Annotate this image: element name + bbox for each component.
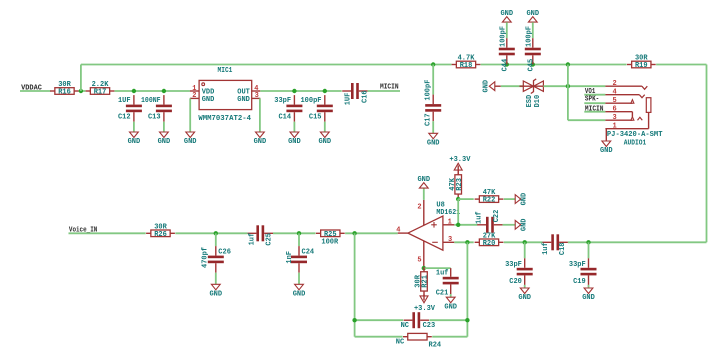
wire R23 node to R22 <box>458 198 474 200</box>
wire R18 to R19 <box>481 64 627 66</box>
svg-text:C13: C13 <box>148 113 161 121</box>
resistor R19 30R <box>627 64 632 66</box>
svg-text:33pF: 33pF <box>505 261 522 269</box>
wire up from junction to MIC1 net <box>80 65 82 92</box>
svg-text:GND: GND <box>293 291 306 299</box>
svg-text:MD1621: MD1621 <box>436 209 460 217</box>
resistor R17 2.2K <box>86 90 91 92</box>
svg-text:D10: D10 <box>534 95 542 108</box>
svg-text:C45: C45 <box>528 59 536 72</box>
svg-text:3: 3 <box>613 114 617 122</box>
junction C14 tap <box>292 89 296 93</box>
svg-text:GND: GND <box>520 193 528 206</box>
svg-text:C15: C15 <box>309 113 322 121</box>
svg-text:1: 1 <box>448 219 452 227</box>
wire gnd to C45 <box>532 22 534 38</box>
wire gnd to C44 <box>506 22 508 38</box>
svg-text:3: 3 <box>448 236 452 244</box>
wire MIC1 net horizontal left segment <box>81 64 452 66</box>
junction jack branch <box>566 62 570 66</box>
ground below C20 <box>520 288 529 294</box>
svg-text:27K: 27K <box>483 232 496 240</box>
svg-text:33pF: 33pF <box>274 97 291 105</box>
svg-text:R16: R16 <box>58 89 71 97</box>
ground below MIC1 pin3 <box>256 132 265 138</box>
wire C22 to ground arrow <box>503 224 516 226</box>
svg-text:2.2K: 2.2K <box>92 81 110 89</box>
svg-text:GND: GND <box>128 138 141 146</box>
wire R16 to R17 <box>79 90 86 92</box>
MIC1 pin 4 OUT <box>252 90 261 92</box>
wire R20 to C18 <box>504 241 543 243</box>
junction C15 tap <box>323 89 327 93</box>
junction feedback branch <box>352 231 356 235</box>
MIC1 pin 3 GND <box>252 97 261 99</box>
wire C23 row right <box>429 319 467 321</box>
svg-text:R25: R25 <box>324 231 337 239</box>
svg-text:C20: C20 <box>509 278 522 286</box>
ground below C13 <box>160 132 169 138</box>
svg-text:WMM7037AT2-4: WMM7037AT2-4 <box>198 115 251 123</box>
ground below C26 <box>211 284 220 290</box>
svg-text:47K: 47K <box>449 177 457 190</box>
capacitor C45 100pF <box>532 38 534 48</box>
svg-text:100pF: 100pF <box>424 80 432 101</box>
svg-text:2: 2 <box>417 204 421 212</box>
junction C23 left <box>352 318 356 322</box>
svg-text:30R: 30R <box>58 81 71 89</box>
svg-text:C26: C26 <box>218 248 231 256</box>
svg-text:GND: GND <box>237 96 250 104</box>
svg-text:GND: GND <box>209 291 222 299</box>
wire jack pin3 row <box>568 119 606 121</box>
svg-text:GND: GND <box>254 138 267 146</box>
svg-text:GND: GND <box>500 10 513 18</box>
wire left feedback vertical <box>354 233 356 336</box>
svg-text:1UF: 1UF <box>345 93 353 106</box>
ground above op-amp pin2 <box>419 183 428 189</box>
svg-text:100NF: 100NF <box>141 97 161 105</box>
svg-text:AUDIO1: AUDIO1 <box>624 140 647 148</box>
svg-text:C44: C44 <box>502 59 510 72</box>
svg-text:GND: GND <box>483 80 491 93</box>
ground below MIC1 pin2 <box>186 132 195 138</box>
svg-text:C21: C21 <box>436 290 449 298</box>
wire R23 node down to plus input <box>457 199 459 225</box>
ground above C44 <box>502 17 511 23</box>
junction C13 tap <box>162 89 166 93</box>
resistor R16 30R <box>50 90 55 92</box>
diode D10 ESD TVS <box>520 85 548 87</box>
svg-text:1uf: 1uf <box>249 233 257 246</box>
junction C24 tap <box>297 231 301 235</box>
svg-text:R17: R17 <box>94 89 107 97</box>
junction minus input feedback <box>465 240 469 244</box>
svg-text:47K: 47K <box>483 189 496 197</box>
junction C23 right <box>465 318 469 322</box>
svg-text:1nF: 1nF <box>286 251 294 264</box>
svg-text:C14: C14 <box>278 113 291 121</box>
op-amp pin 2 top <box>423 200 425 225</box>
wire jack branch vertical <box>567 65 569 121</box>
svg-text:C25: C25 <box>265 233 273 246</box>
svg-text:PJ-3420-A-SMT: PJ-3420-A-SMT <box>607 131 663 139</box>
microphone MIC1 WMM7037AT2-4 body <box>199 80 252 109</box>
svg-text:R24: R24 <box>429 342 442 350</box>
junction C45 tap <box>531 62 535 66</box>
svg-text:C24: C24 <box>302 248 315 256</box>
junction C26 tap <box>214 231 218 235</box>
svg-text:C17: C17 <box>424 113 432 126</box>
op-amp pin 5 bottom <box>423 241 425 267</box>
wire MIC1 pin2 to ground <box>189 98 191 132</box>
svg-text:4: 4 <box>396 226 400 234</box>
svg-text:2: 2 <box>192 92 196 100</box>
resistor R20 27K <box>475 241 480 243</box>
svg-text:4.7K: 4.7K <box>458 55 476 63</box>
svg-text:R22: R22 <box>483 197 496 205</box>
svg-text:1: 1 <box>613 123 617 131</box>
ground below C17 <box>429 133 438 139</box>
svg-text:+3.3V: +3.3V <box>414 305 436 313</box>
wire VDDAC to R16 <box>20 90 51 92</box>
resistor R24 NC <box>403 336 408 338</box>
ground below C14 <box>290 132 299 138</box>
MIC1 pin 2 GND <box>190 97 199 99</box>
wire jack pin1 to ground <box>605 129 607 141</box>
capacitor C23 NC <box>412 312 415 328</box>
wire C17 drop <box>432 65 434 95</box>
svg-text:GND: GND <box>184 138 197 146</box>
svg-text:4: 4 <box>613 89 617 97</box>
wire pin5 node to C21 <box>424 267 451 269</box>
capacitor C19 33pF <box>588 242 590 258</box>
op-amp U8 MD1621 <box>408 201 460 250</box>
svg-text:100pF: 100pF <box>525 26 533 47</box>
wire right edge vertical <box>706 65 708 243</box>
op-amp pin 3 minus input <box>443 241 454 243</box>
junction plus input <box>456 223 460 227</box>
svg-text:ESD: ESD <box>526 95 534 108</box>
ground left of D10 <box>489 82 495 91</box>
ground below C15 <box>320 132 329 138</box>
capacitor C16 1UF series <box>351 83 354 99</box>
svg-text:GND: GND <box>520 218 528 231</box>
MIC1 pin 1 VDD <box>190 90 199 92</box>
wire C16 to MICIN label <box>368 90 400 92</box>
wire R17 to MIC1 VDD pin <box>115 90 190 92</box>
resistor R23 47K vertical <box>457 170 459 175</box>
wire R24 row right <box>432 336 467 338</box>
wire feedback vertical right <box>466 242 468 336</box>
svg-text:5: 5 <box>613 97 617 105</box>
junction C19 tap <box>586 240 590 244</box>
svg-text:1UF: 1UF <box>118 97 131 105</box>
wire MICIN to jack pin6 <box>584 111 605 113</box>
svg-text:1uf: 1uf <box>436 269 449 277</box>
svg-text:3: 3 <box>255 92 259 100</box>
wire VO1 to jack pin4 <box>584 94 605 96</box>
wire MIC1 OUT to C16 <box>260 90 341 92</box>
junction pin5 node <box>422 266 426 270</box>
ground above C45 <box>528 17 537 23</box>
svg-text:C16: C16 <box>361 90 369 103</box>
svg-text:6: 6 <box>613 106 617 114</box>
wire R26 to C25 <box>175 232 247 234</box>
svg-text:100pF: 100pF <box>499 26 507 47</box>
connector AUDIO1 PJ-3420-A-SMT jack <box>605 80 650 131</box>
svg-text:GND: GND <box>417 176 430 184</box>
svg-text:GND: GND <box>158 138 171 146</box>
wire plus input row <box>454 224 477 226</box>
junction D10 net <box>566 84 570 88</box>
capacitor C24 1nF <box>298 233 300 246</box>
op-amp pin 4 input <box>398 232 408 234</box>
resistor R25 100R <box>316 232 321 234</box>
capacitor C25 1uf series <box>256 225 259 241</box>
svg-text:GND: GND <box>318 138 331 146</box>
capacitor C21 1uf <box>450 268 452 277</box>
wire pin2 to ground <box>423 188 425 200</box>
svg-text:+3.3V: +3.3V <box>449 156 471 164</box>
ground below C19 <box>584 288 593 294</box>
svg-text:GND: GND <box>444 303 457 311</box>
resistor R21 30R vertical <box>423 267 425 272</box>
wire D10 to jack pin2 <box>543 85 605 87</box>
svg-text:NC: NC <box>401 322 409 330</box>
svg-text:GND: GND <box>427 140 440 148</box>
wire R25 to op-amp <box>345 232 398 234</box>
svg-text:1uf: 1uf <box>476 211 484 224</box>
supply +3.3V below R21 <box>423 295 425 301</box>
wire Voice_IN to R26 <box>69 232 146 234</box>
svg-text:R21: R21 <box>422 275 430 288</box>
wire R19 to right edge <box>656 64 706 66</box>
capacitor C22 1uf <box>486 217 489 233</box>
ground below C24 <box>295 284 304 290</box>
svg-text:C19: C19 <box>573 278 586 286</box>
junction C44 tap <box>505 62 509 66</box>
svg-text:C12: C12 <box>118 113 131 121</box>
svg-text:30R: 30R <box>635 55 648 63</box>
wire SPK- to jack pin5 <box>584 102 605 104</box>
ground below C21 <box>446 297 455 303</box>
wire MIC1 pin3 to ground <box>259 98 261 132</box>
ground below C12 <box>130 132 139 138</box>
junction C20 tap <box>523 240 527 244</box>
svg-text:C22: C22 <box>493 210 501 223</box>
ground below jack pin1 <box>602 141 611 147</box>
capacitor C18 1uf series <box>551 234 554 250</box>
svg-text:GND: GND <box>526 10 539 18</box>
svg-text:C23: C23 <box>423 322 436 330</box>
junction C17 tap <box>431 62 435 66</box>
wire R24 row left <box>355 336 403 338</box>
svg-text:NC: NC <box>396 339 404 347</box>
capacitor C13 100NF <box>163 95 165 105</box>
ground right of C22 <box>515 220 521 229</box>
wire gnd to D10 <box>501 85 524 87</box>
svg-text:R20: R20 <box>483 240 496 248</box>
op-amp pin 1 plus input <box>443 224 454 226</box>
svg-text:GND: GND <box>582 294 595 302</box>
resistor R18 4.7K <box>452 64 457 66</box>
capacitor C14 33pF <box>293 95 295 105</box>
svg-text:MICIN: MICIN <box>380 83 399 91</box>
wire C23 row left <box>355 319 404 321</box>
svg-text:C18: C18 <box>559 242 567 255</box>
svg-text:470pf: 470pf <box>202 247 210 268</box>
junction R23 bottom <box>456 197 460 201</box>
svg-text:R23: R23 <box>456 178 464 191</box>
wire pin5 to R21/C21 node <box>423 266 425 268</box>
capacitor C12 1UF <box>133 95 135 105</box>
svg-text:GND: GND <box>518 294 531 302</box>
wire C25 to R25 <box>273 232 316 234</box>
ground right of R22 <box>515 195 521 204</box>
svg-text:2: 2 <box>613 80 617 88</box>
svg-text:R18: R18 <box>460 62 473 70</box>
svg-text:R26: R26 <box>154 231 167 239</box>
svg-text:MIC1: MIC1 <box>218 67 233 75</box>
resistor R26 30R <box>146 232 151 234</box>
svg-text:30R: 30R <box>415 274 423 287</box>
capacitor C44 100pF <box>506 38 508 48</box>
svg-text:1uf: 1uf <box>542 242 550 255</box>
svg-text:R19: R19 <box>635 62 648 70</box>
capacitor C17 100pF <box>432 95 434 105</box>
svg-text:5: 5 <box>417 257 421 265</box>
junction C12 tap <box>132 89 136 93</box>
svg-text:GND: GND <box>202 96 215 104</box>
wire R22 to ground arrow <box>504 198 515 200</box>
svg-text:33pF: 33pF <box>569 261 586 269</box>
capacitor C15 100pF <box>324 95 326 105</box>
capacitor C26 470pf <box>215 233 217 246</box>
svg-text:100R: 100R <box>321 239 339 247</box>
svg-text:30R: 30R <box>154 223 167 231</box>
resistor R22 47K <box>475 198 480 200</box>
capacitor C20 33pF <box>524 242 526 258</box>
svg-text:GND: GND <box>288 138 301 146</box>
wire C18 to right edge <box>568 241 707 243</box>
wire minus input row <box>454 241 473 243</box>
junction R16/R17 node <box>79 89 83 93</box>
svg-text:100pF: 100pF <box>300 97 321 105</box>
svg-text:GND: GND <box>600 147 613 155</box>
